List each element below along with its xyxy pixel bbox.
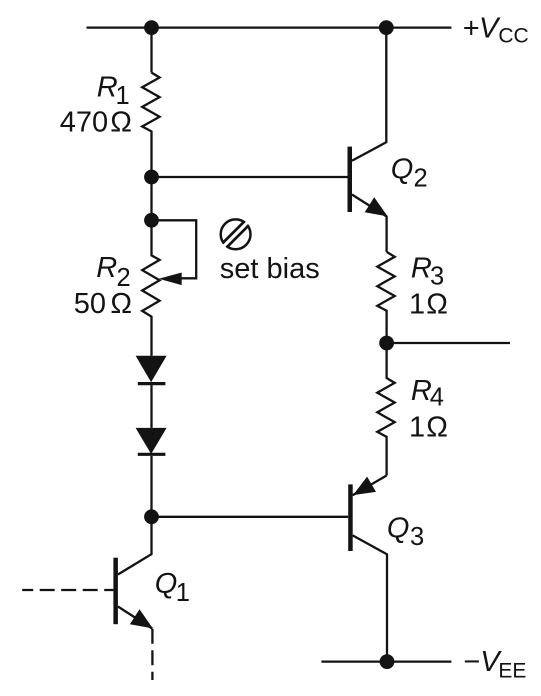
svg-text:2: 2 [117, 264, 131, 292]
svg-text:4: 4 [430, 384, 444, 412]
svg-text:1: 1 [116, 82, 130, 110]
svg-text:set bias: set bias [220, 253, 320, 285]
svg-text:50: 50 [74, 288, 106, 320]
svg-text:Ω: Ω [426, 412, 448, 444]
svg-text:Ω: Ω [110, 288, 132, 320]
svg-text:+: + [463, 12, 480, 44]
svg-text:1: 1 [409, 288, 425, 320]
svg-text:EE: EE [498, 659, 526, 682]
svg-text:3: 3 [430, 263, 444, 291]
svg-text:470: 470 [60, 106, 108, 138]
svg-text:3: 3 [410, 523, 424, 551]
svg-text:CC: CC [498, 24, 528, 47]
svg-text:R: R [411, 252, 432, 284]
svg-text:R: R [96, 252, 117, 284]
svg-text:2: 2 [414, 164, 428, 192]
svg-text:Ω: Ω [110, 106, 132, 138]
svg-text:1: 1 [409, 412, 425, 444]
svg-text:Ω: Ω [426, 288, 448, 320]
svg-text:Q: Q [155, 568, 178, 600]
svg-text:1: 1 [176, 579, 190, 607]
svg-text:−: − [463, 646, 480, 678]
svg-text:Q: Q [387, 512, 410, 544]
svg-text:Q: Q [391, 154, 414, 186]
